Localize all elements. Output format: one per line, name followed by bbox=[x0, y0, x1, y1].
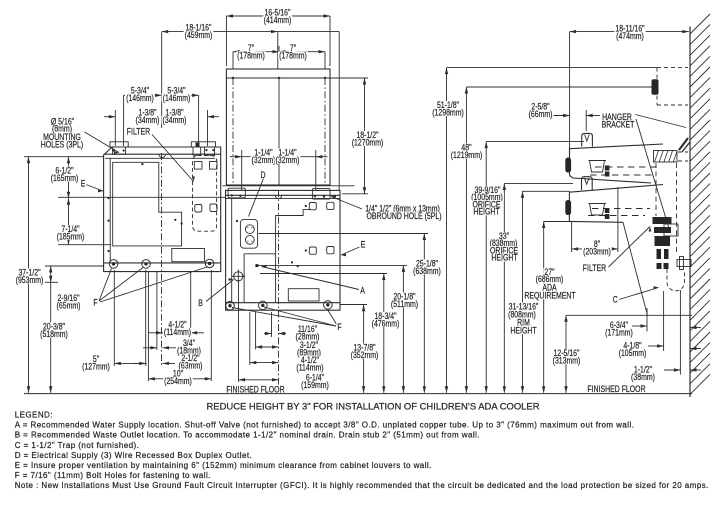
svg-text:(476mm): (476mm) bbox=[372, 318, 400, 328]
text 4-1/2 left bbox=[167, 321, 187, 329]
svg-text:(66mm): (66mm) bbox=[529, 109, 553, 119]
apron line bbox=[104, 262, 221, 264]
louver box bbox=[172, 249, 205, 262]
text 31-13/16 rim bbox=[508, 303, 540, 311]
text 48 bbox=[460, 144, 472, 152]
dim 1-1/4 x2 bbox=[230, 156, 242, 158]
inner left line right cooler bbox=[231, 198, 233, 302]
svg-text:B: B bbox=[198, 298, 203, 308]
svg-text:(114mm): (114mm) bbox=[164, 327, 191, 337]
wall line bbox=[689, 27, 691, 398]
leader E left bbox=[86, 185, 103, 192]
basin lip bbox=[104, 153, 221, 155]
text 18-3/4 bbox=[373, 312, 397, 320]
text 18-1/2 bbox=[355, 131, 379, 139]
svg-text:OBROUND HOLE (5PL): OBROUND HOLE (5PL) bbox=[366, 211, 441, 221]
bolts right cooler bbox=[226, 301, 235, 310]
water supply stub (black) bbox=[652, 79, 659, 95]
svg-text:Note : New Installations Must: Note : New Installations Must Use Ground… bbox=[15, 481, 709, 490]
text 4-1/8 bbox=[622, 342, 642, 350]
svg-text:(165mm): (165mm) bbox=[51, 173, 79, 183]
ext left bolt bbox=[113, 270, 115, 366]
text 10 bbox=[172, 370, 184, 378]
svg-text:(953mm): (953mm) bbox=[16, 275, 44, 285]
text 1-1/4 left bbox=[253, 149, 273, 157]
leader mounting holes bbox=[85, 132, 120, 153]
text 27 ADA bbox=[543, 268, 555, 276]
interior panel right cooler bbox=[244, 210, 311, 303]
text 51-1/8 bbox=[436, 101, 460, 109]
finished floor line bbox=[24, 393, 692, 395]
dim 1-3/8 x2 bbox=[104, 116, 115, 118]
dim 4-1/2 right bbox=[250, 362, 279, 364]
svg-text:(518mm): (518mm) bbox=[40, 329, 68, 339]
svg-text:(474mm): (474mm) bbox=[616, 31, 644, 41]
dim 5 inch bbox=[114, 362, 145, 364]
dim 31-13/16 rim bbox=[522, 191, 524, 392]
text 7-1/4 bbox=[60, 225, 80, 233]
leader C bbox=[619, 288, 659, 300]
text 5-3/4 right bbox=[166, 87, 186, 95]
upper bubbler bbox=[582, 133, 593, 146]
leader filter right bbox=[609, 227, 651, 268]
svg-text:(254mm): (254mm) bbox=[164, 376, 192, 386]
interior access panel (L-shape) bbox=[113, 162, 182, 246]
right cooler outline bbox=[226, 190, 340, 310]
svg-text:(146mm): (146mm) bbox=[163, 93, 191, 103]
dim 48 bbox=[465, 87, 467, 393]
leader F left bbox=[99, 269, 112, 302]
back slant line bbox=[623, 222, 648, 315]
filter top fittings bbox=[194, 162, 202, 170]
svg-text:HEIGHT: HEIGHT bbox=[473, 207, 500, 217]
svg-text:(159mm): (159mm) bbox=[301, 380, 329, 390]
dim 2-1/2 bbox=[134, 362, 147, 364]
svg-text:(203mm): (203mm) bbox=[583, 246, 611, 256]
dim 16-5/16 bbox=[226, 15, 330, 17]
leader E right bbox=[341, 247, 360, 255]
svg-text:(185mm): (185mm) bbox=[57, 231, 85, 241]
svg-text:C = 1-1/2" Trap (not furnished: C = 1-1/2" Trap (not furnished). bbox=[15, 441, 140, 450]
svg-text:REQUIREMENT: REQUIREMENT bbox=[524, 291, 576, 301]
filter cluster side view bbox=[653, 217, 672, 224]
svg-text:(1298mm): (1298mm) bbox=[432, 107, 464, 117]
dim 7 left bbox=[233, 51, 279, 53]
text mounting holes bbox=[50, 118, 75, 126]
dashed riser pipes bbox=[655, 163, 657, 216]
upper hanger bracket block bbox=[654, 151, 678, 163]
svg-text:(105mm): (105mm) bbox=[619, 348, 647, 358]
dim 6-1/2 bbox=[68, 157, 70, 199]
svg-text:A = Recommended Water Supply l: A = Recommended Water Supply location. S… bbox=[15, 421, 635, 430]
svg-text:(178mm): (178mm) bbox=[237, 50, 265, 60]
svg-text:(146mm): (146mm) bbox=[126, 93, 154, 103]
wall-side bracket marks bbox=[679, 138, 688, 150]
left top cap bbox=[110, 142, 128, 147]
text 18-11/16 bbox=[614, 25, 645, 33]
obround holes pair left bbox=[195, 205, 202, 213]
svg-text:(114mm): (114mm) bbox=[296, 362, 323, 372]
leader A bbox=[262, 267, 360, 290]
text 20-1/8 bbox=[392, 293, 416, 301]
text 2-5/8 bbox=[530, 103, 550, 111]
leader F right bbox=[232, 308, 336, 327]
dim 7-1/4 bbox=[68, 198, 70, 245]
dim 18-11/16 line bbox=[570, 31, 689, 33]
ext line front of upper cooler bbox=[569, 32, 571, 149]
svg-text:(171mm): (171mm) bbox=[605, 327, 633, 337]
text 3/4 bbox=[182, 339, 196, 347]
drain fittings bbox=[657, 263, 662, 269]
svg-text:F: F bbox=[337, 322, 342, 332]
dim 18-1/2 vertical bbox=[364, 78, 366, 194]
svg-text:(1219mm): (1219mm) bbox=[451, 150, 483, 160]
text 2-9/16 bbox=[56, 294, 80, 302]
svg-text:(414mm): (414mm) bbox=[264, 15, 292, 25]
svg-text:(32mm): (32mm) bbox=[252, 155, 276, 165]
dim 10 inch bbox=[148, 378, 211, 380]
ext basin line across bbox=[58, 196, 226, 198]
panel centerline bbox=[324, 78, 326, 183]
svg-text:(127mm): (127mm) bbox=[82, 361, 110, 371]
svg-text:B = Recommended Waste Outlet l: B = Recommended Waste Outlet location. T… bbox=[15, 431, 480, 440]
text 4-1/2 right bbox=[300, 356, 320, 364]
text 18-1/16 bbox=[185, 24, 213, 32]
text 39-9/16 orifice bbox=[474, 186, 502, 194]
wall hatching bbox=[690, 14, 710, 34]
dim 6-3/4 bbox=[632, 325, 647, 327]
text 7 left bbox=[247, 44, 255, 52]
basin inner line right bbox=[226, 197, 340, 199]
text 8 bbox=[593, 240, 601, 248]
centerline right cooler bbox=[278, 190, 280, 385]
text 25-1/8 bbox=[415, 260, 439, 268]
extension line panel centerline bbox=[277, 32, 279, 69]
dim 4-1/2 left bbox=[148, 332, 163, 334]
dim 51-1/8 bbox=[446, 68, 448, 393]
leader obround hole bbox=[331, 197, 362, 210]
dim 39-9/16 orifice bbox=[485, 142, 487, 393]
svg-text:FILTER: FILTER bbox=[127, 127, 151, 137]
basin lip right bbox=[226, 194, 340, 196]
text 6-3/4 bbox=[609, 321, 629, 329]
svg-text:(1270mm): (1270mm) bbox=[352, 137, 384, 147]
duplex outlet D bbox=[240, 219, 257, 248]
dim 3-1/2 bbox=[256, 346, 279, 348]
leader B bbox=[206, 280, 234, 302]
obround holes pairs right bbox=[309, 203, 316, 210]
svg-text:(32mm): (32mm) bbox=[276, 155, 300, 165]
svg-text:FINISHED FLOOR: FINISHED FLOOR bbox=[587, 384, 646, 394]
dim 4-1/8 bbox=[648, 345, 664, 347]
svg-text:F = 7/16" (11mm) Bolt Holes fo: F = 7/16" (11mm) Bolt Holes for fastenin… bbox=[15, 471, 211, 480]
drain outlet stub bbox=[677, 260, 691, 267]
text 13-7/8 bbox=[352, 344, 376, 352]
svg-text:D: D bbox=[261, 170, 266, 180]
text hanger bracket bbox=[601, 113, 633, 121]
dim 5-3/4 left bbox=[124, 94, 162, 96]
dim 13-7/8 bbox=[363, 305, 365, 393]
ext right bolt bbox=[210, 270, 212, 381]
P-trap (dashed) C bbox=[667, 269, 685, 291]
bolts left cooler bbox=[109, 260, 118, 269]
panel lower strip line bbox=[222, 185, 354, 187]
text 5-3/4 left bbox=[130, 87, 150, 95]
dim 2-5/8 bbox=[553, 115, 570, 117]
text 20-3/8 bbox=[42, 323, 66, 331]
dim 37-1/2 bbox=[28, 157, 30, 393]
dim 20-3/8 / 2-9/16 bbox=[50, 266, 52, 393]
dim 25-1/8 bbox=[423, 234, 425, 393]
dim 18-1/16 line bbox=[162, 31, 340, 33]
dark obround marker bbox=[196, 143, 200, 147]
svg-text:(511mm): (511mm) bbox=[391, 299, 418, 309]
text 7 right bbox=[289, 44, 297, 52]
ext 7-1/4 bottom bbox=[58, 244, 111, 246]
upper panel outline bbox=[226, 69, 330, 185]
lower interior dashed water lines bbox=[592, 208, 650, 210]
svg-text:(178mm): (178mm) bbox=[279, 50, 307, 60]
small dots left cooler bbox=[174, 219, 176, 221]
centerline left cooler bbox=[161, 153, 163, 365]
svg-text:HOLES (3PL): HOLES (3PL) bbox=[41, 139, 83, 149]
lower regulator assembly bbox=[589, 204, 607, 216]
top dashed recess box near wall bbox=[657, 67, 688, 69]
svg-text:E: E bbox=[361, 240, 366, 250]
svg-text:(638mm): (638mm) bbox=[413, 266, 441, 276]
dim 33 orifice bbox=[503, 183, 505, 392]
upper cooler side profile bbox=[570, 144, 664, 149]
apron right bbox=[226, 302, 340, 304]
svg-text:(38mm): (38mm) bbox=[631, 372, 655, 382]
svg-text:REDUCE HEIGHT BY 3" FOR INSTAL: REDUCE HEIGHT BY 3" FOR INSTALLATION OF … bbox=[207, 401, 540, 411]
svg-text:LEGEND:: LEGEND: bbox=[15, 411, 53, 420]
text 6-1/2 bbox=[54, 167, 74, 175]
inner left line bbox=[109, 158, 111, 263]
svg-text:(352mm): (352mm) bbox=[351, 350, 379, 360]
lower cooler side profile bbox=[569, 185, 663, 193]
svg-text:BRACKET: BRACKET bbox=[602, 120, 635, 130]
svg-text:E = Insure proper ventilation: E = Insure proper ventilation by maintai… bbox=[15, 461, 432, 470]
cap right on right cooler bbox=[312, 189, 330, 199]
basin inner line bbox=[105, 157, 215, 159]
upper unit front button bbox=[565, 158, 571, 173]
extension line filter centerline bbox=[161, 32, 163, 128]
text 1-1/2 bbox=[633, 366, 653, 374]
svg-text:C: C bbox=[613, 295, 618, 305]
text 1-1/4 right bbox=[277, 149, 297, 157]
svg-text:D = Electrical Supply (3) Wire: D = Electrical Supply (3) Wire Recessed … bbox=[15, 451, 253, 460]
ext mid bolt bbox=[145, 270, 147, 366]
dim 27 ADA bbox=[543, 222, 545, 393]
text 12-5/16 bbox=[553, 349, 581, 357]
dim 6-1/4 bbox=[239, 379, 279, 381]
svg-text:(65mm): (65mm) bbox=[57, 300, 81, 310]
upper interior dashed water lines bbox=[595, 166, 660, 168]
text obround hole bbox=[364, 205, 441, 213]
supply point A bbox=[255, 264, 258, 267]
right top cap group bbox=[191, 142, 215, 147]
cap left on right cooler bbox=[228, 188, 245, 198]
text 1-3/8 right bbox=[164, 109, 184, 117]
dim 8 inch bbox=[572, 248, 618, 250]
svg-text:FINISHED FLOOR: FINISHED FLOOR bbox=[226, 384, 285, 394]
filter cartridge (dashed) bbox=[193, 156, 217, 232]
text 16-5/16 bbox=[264, 9, 292, 17]
ext panel inner line bbox=[330, 77, 368, 79]
svg-text:(34mm): (34mm) bbox=[163, 115, 187, 125]
svg-text:(34mm): (34mm) bbox=[136, 115, 160, 125]
lower hatched bracket bbox=[664, 224, 678, 236]
waste outlet B circle bbox=[234, 272, 243, 281]
svg-text:F: F bbox=[93, 298, 98, 308]
text 2-1/2 bbox=[180, 354, 200, 362]
ext top of left cooler bbox=[24, 156, 104, 158]
text 6-1/4 bbox=[305, 374, 325, 382]
svg-text:HEIGHT: HEIGHT bbox=[491, 253, 518, 263]
dim 20-1/8 bbox=[402, 265, 404, 392]
louver box right bbox=[288, 289, 319, 301]
bubbler notch right bbox=[275, 195, 282, 198]
text 5 bbox=[92, 355, 100, 363]
dim 11/16 bbox=[264, 333, 272, 335]
dim 18-3/4 bbox=[383, 274, 385, 393]
dim 12-5/16 bbox=[565, 315, 567, 393]
lower unit front button bbox=[565, 200, 571, 215]
svg-text:(313mm): (313mm) bbox=[553, 355, 581, 365]
text 33 orifice bbox=[498, 232, 510, 240]
dim 3/4 bbox=[143, 347, 157, 349]
leader D bbox=[249, 179, 264, 217]
leaders hanger bracket bbox=[636, 115, 687, 128]
text 11/16 bbox=[297, 325, 318, 333]
panel centerline bbox=[232, 78, 234, 183]
dots right cooler bbox=[291, 261, 293, 263]
extension line right cooler corner bbox=[338, 32, 340, 190]
panel center solid line bbox=[278, 78, 280, 185]
text 3-1/2 bbox=[299, 341, 319, 349]
svg-text:(459mm): (459mm) bbox=[185, 30, 213, 40]
left cooler outline bbox=[104, 147, 221, 272]
dim 5-3/4 right bbox=[162, 94, 199, 96]
leader filter left bbox=[152, 135, 194, 182]
svg-text:FILTER: FILTER bbox=[583, 263, 607, 273]
svg-text:HEIGHT: HEIGHT bbox=[510, 326, 537, 336]
text 1-3/8 left bbox=[137, 109, 157, 117]
text 37-1/2 bbox=[17, 269, 41, 277]
bubbler notch bbox=[159, 154, 166, 157]
lower bubbler bbox=[582, 177, 593, 190]
dim 7 right bbox=[279, 51, 325, 53]
svg-text:E: E bbox=[81, 179, 86, 189]
dim 1-1/2 bbox=[664, 369, 680, 371]
svg-text:A: A bbox=[360, 286, 365, 296]
upper regulator assembly bbox=[589, 161, 607, 173]
panel inner top line bbox=[226, 77, 330, 79]
